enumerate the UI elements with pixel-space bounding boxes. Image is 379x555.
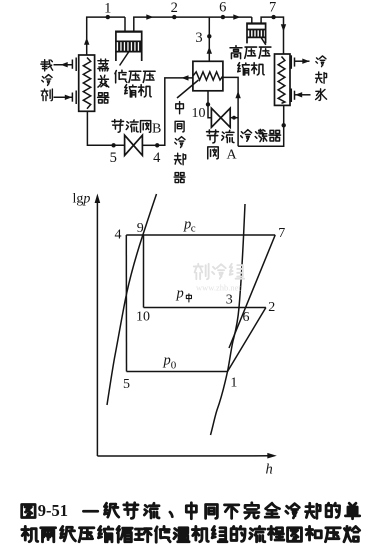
condenser water inlet stub lower (291, 89, 310, 103)
svg-text:1: 1 (230, 376, 237, 391)
label 冷却水 (316, 56, 327, 101)
throttle valve A (211, 108, 238, 127)
LP compressor suction pipe (124, 17, 126, 31)
saturated liquid line (107, 194, 157, 405)
svg-text:www.zhb.net: www.zhb.net (196, 283, 241, 293)
compression line 1-2 (228, 308, 266, 372)
x axis (97, 453, 276, 478)
label 低压压缩机 (115, 70, 155, 97)
node 2 (171, 0, 178, 19)
svg-text:A: A (227, 148, 238, 163)
svg-text:c: c (191, 223, 196, 235)
label 冷凝器 (241, 129, 281, 141)
svg-text:3: 3 (195, 30, 202, 46)
compression line 6-7 (229, 235, 275, 348)
svg-text:B: B (152, 122, 161, 137)
label p0 (163, 353, 177, 372)
svg-text:4: 4 (153, 150, 161, 166)
svg-text:p: p (163, 353, 171, 369)
evaporator brine inlet stub lower (54, 91, 77, 105)
label pc (183, 217, 196, 235)
svg-text:5: 5 (110, 150, 117, 166)
throttle line 4-5 (125, 235, 127, 372)
svg-text:h: h (266, 462, 273, 478)
svg-text:lgp: lgp (73, 192, 91, 207)
vapor riser from intercooler to junction, node 3 (195, 17, 212, 61)
svg-text:7: 7 (278, 226, 285, 241)
label 蒸发器 (98, 59, 109, 103)
svg-text:2: 2 (268, 300, 275, 315)
HP compressor suction pipe (251, 17, 253, 23)
saturated vapor line (211, 204, 246, 435)
label 节流阀A (207, 130, 234, 159)
isobar pc line 4-9-7 (126, 234, 275, 236)
svg-text:10: 10 (192, 106, 206, 121)
node 7 and wire HP discharge to condenser (261, 0, 286, 54)
wire LP discharge to node 2 and node 6 (134, 14, 252, 31)
lgp-h diagram: y axis (73, 192, 101, 457)
svg-text:6: 6 (219, 0, 226, 16)
label 高压压缩机 (230, 46, 271, 75)
condenser water outlet stub upper (291, 55, 309, 69)
svg-text:9: 9 (137, 221, 144, 236)
svg-text:5: 5 (123, 377, 130, 392)
label 中间冷却器 (174, 102, 186, 183)
caption line 1 (22, 503, 360, 519)
node 5 (110, 143, 117, 166)
HP compressor U2 (247, 23, 266, 45)
isobar p0 line 5-1 (127, 371, 228, 373)
svg-text:10: 10 (136, 310, 150, 325)
wire intercooler coil out to node 4 (157, 75, 193, 145)
svg-text:0: 0 (171, 360, 177, 372)
watermark (194, 264, 244, 279)
condenser box (275, 54, 291, 105)
svg-text:4: 4 (115, 228, 122, 243)
node 4 (153, 143, 161, 166)
node 6 (219, 0, 226, 19)
evaporator box (79, 55, 95, 111)
label p-mid (176, 286, 192, 302)
node 1 (104, 1, 111, 20)
wire condenser bottom to riser (238, 105, 286, 146)
label 节流阀B (112, 120, 151, 133)
throttle valve B (125, 135, 158, 155)
LP compressor U1 (116, 31, 142, 65)
wire valve B to evaporator (87, 111, 124, 145)
svg-text:p: p (176, 286, 184, 302)
throttle line 9-10 (143, 235, 145, 308)
svg-text:6: 6 (243, 310, 250, 325)
caption line 2 (22, 526, 360, 542)
liquid riser to intercooler coil (223, 77, 241, 146)
wire valve A branch, node 10 (192, 91, 212, 121)
intercooler box (193, 61, 223, 91)
svg-text:3: 3 (226, 293, 233, 308)
svg-text:1: 1 (104, 1, 111, 17)
svg-text:2: 2 (171, 0, 178, 16)
svg-text:7: 7 (269, 0, 276, 16)
label 载冷剂 (41, 60, 53, 101)
intercooler leader line (177, 80, 199, 98)
isobar p-mid line 10-3-6-2 (144, 307, 266, 309)
evaporator brine inlet stub upper (54, 58, 77, 72)
wire evaporator to node 1 (84, 17, 125, 55)
svg-text:9-51: 9-51 (38, 501, 68, 520)
